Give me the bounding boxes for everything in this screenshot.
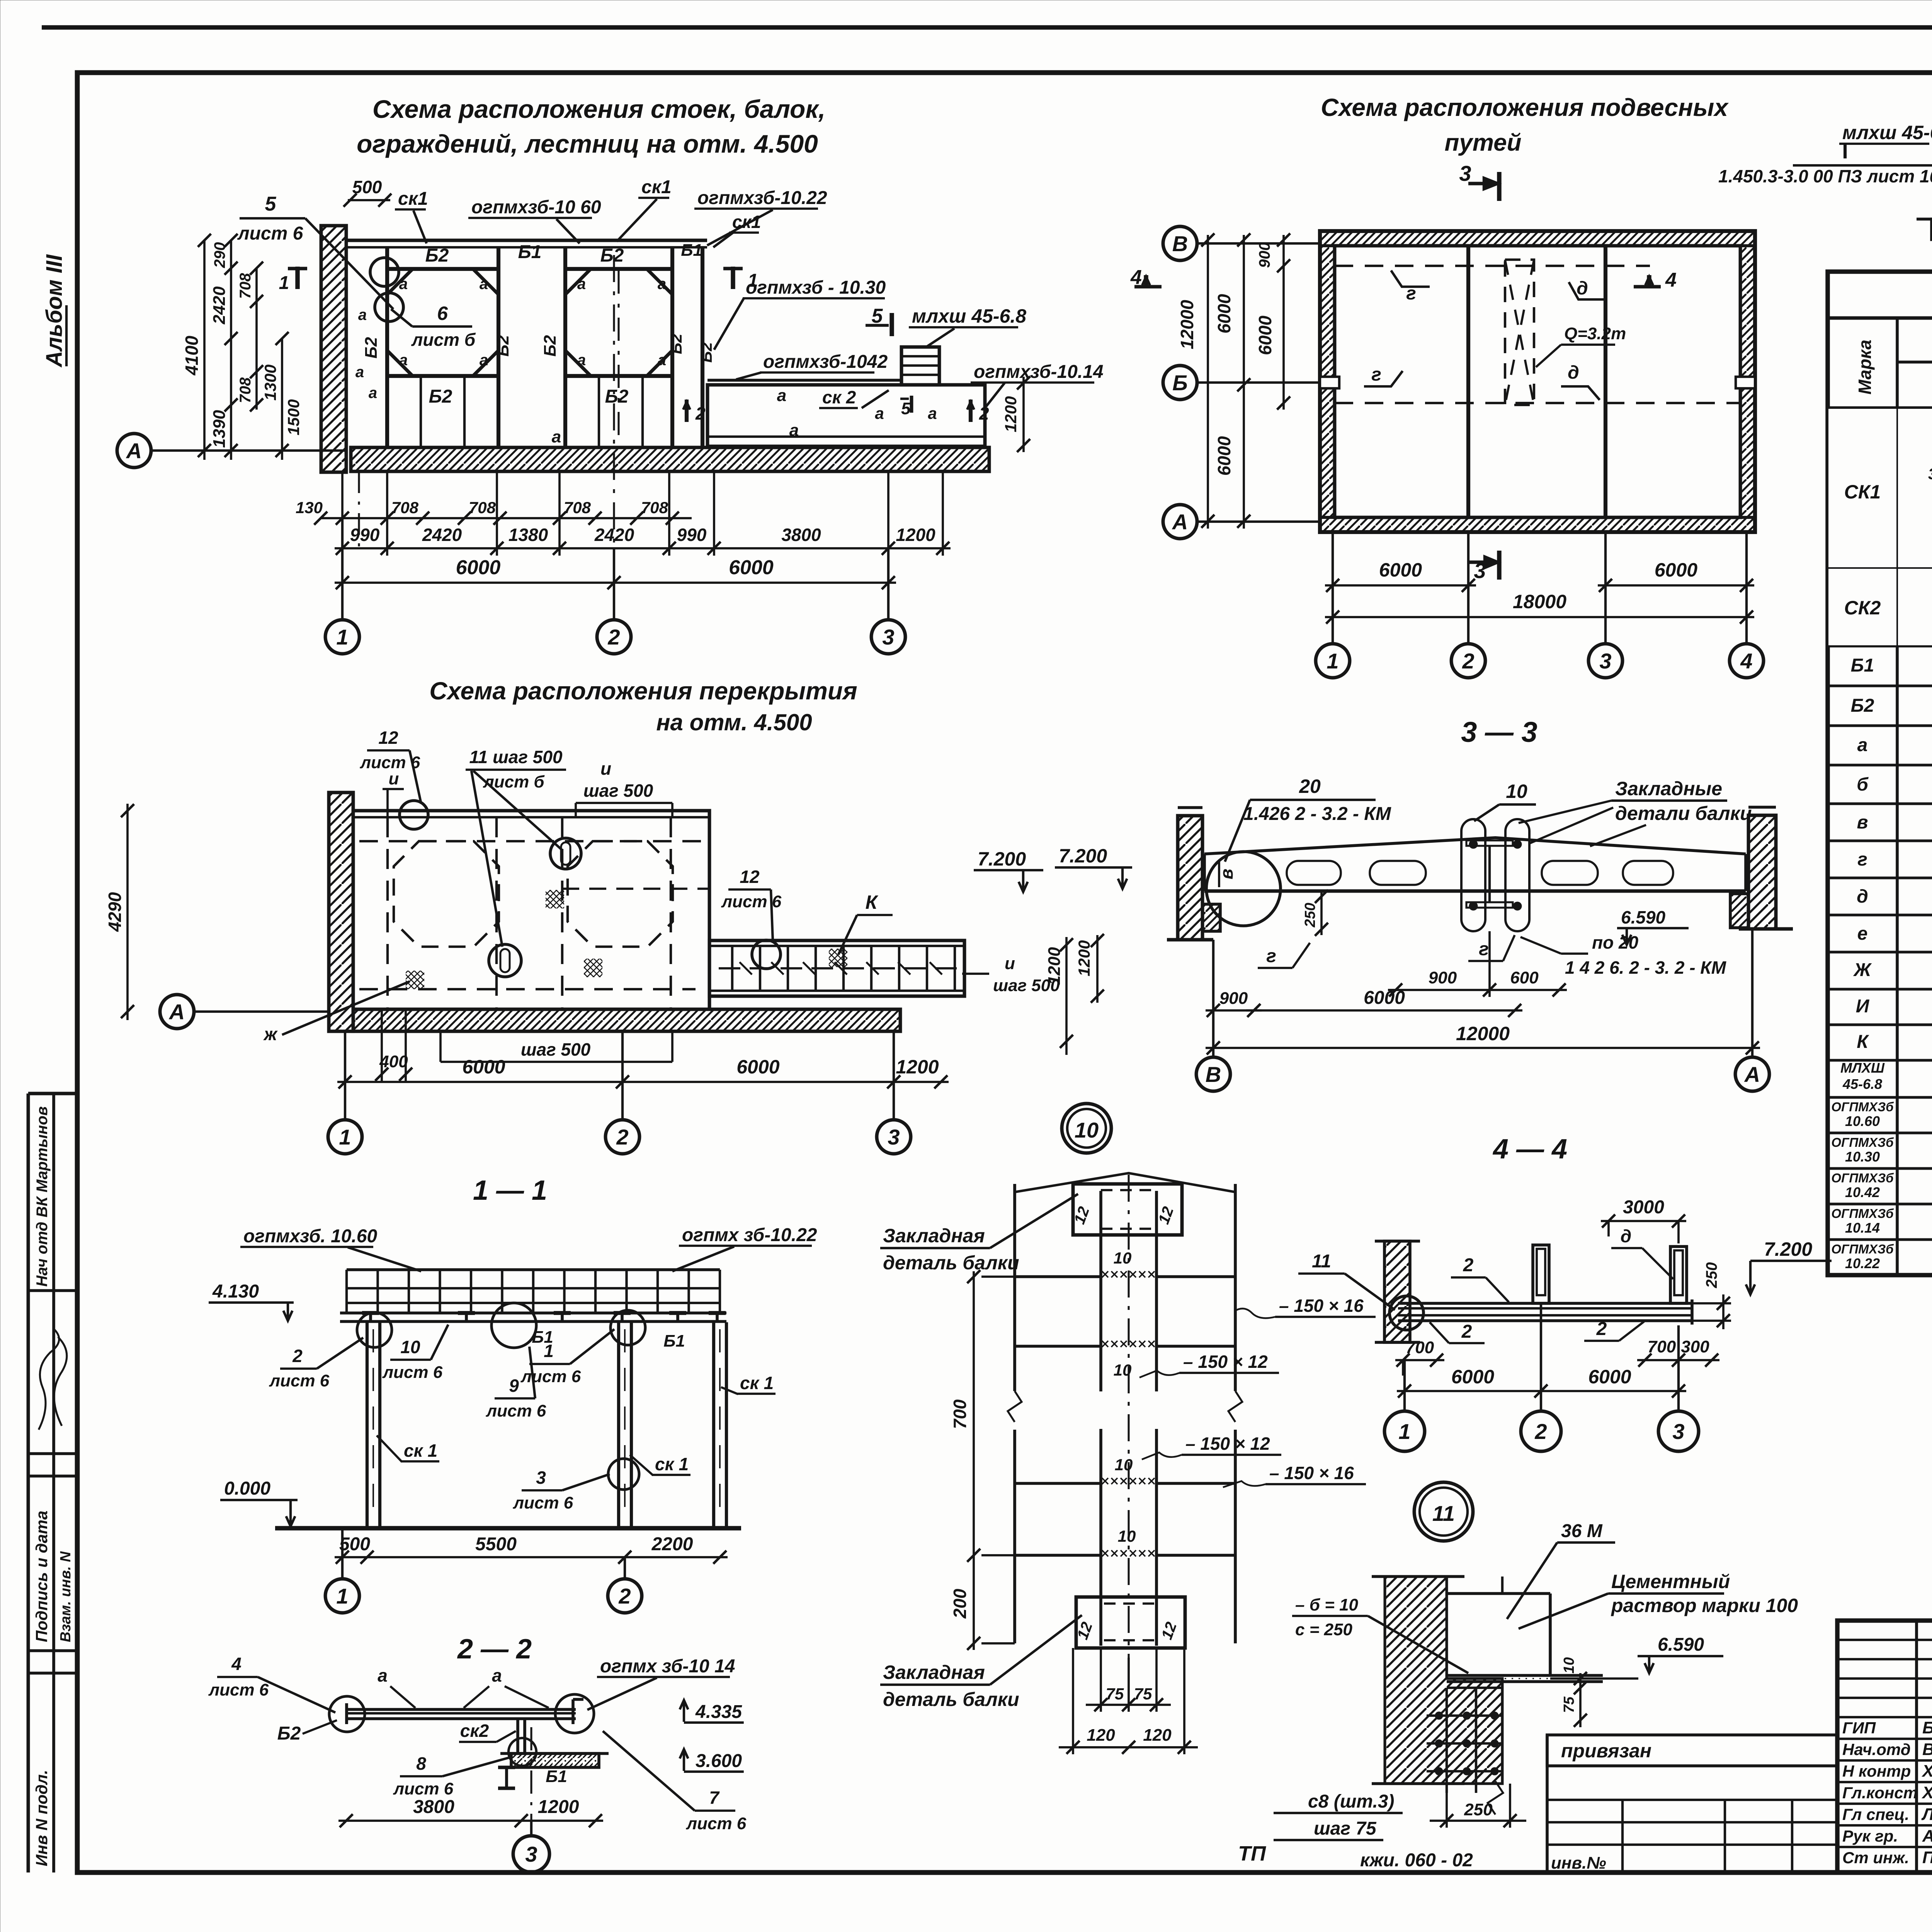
bay1 top and bottom bars <box>387 267 498 271</box>
svg-text:10.22: 10.22 <box>1845 1255 1880 1271</box>
svg-text:Б1: Б1 <box>546 1767 567 1786</box>
svg-text:I: I <box>1842 139 1848 163</box>
section flag 1 left <box>295 267 299 289</box>
svg-text:– 150 × 16: – 150 × 16 <box>1279 1296 1364 1316</box>
wall right hatched section3 <box>1748 815 1776 929</box>
left dim 4290 plan3 <box>126 804 129 1020</box>
svg-text:2: 2 <box>1534 1419 1547 1444</box>
small plates on girder section3 <box>1466 840 1513 846</box>
svg-text:120: 120 <box>1087 1726 1115 1745</box>
svg-text:д: д <box>1568 362 1579 383</box>
svg-text:Н контр: Н контр <box>1842 1762 1911 1780</box>
svg-text:Гл.конст: Гл.конст <box>1842 1784 1918 1802</box>
bolt rows detail11 <box>1427 1714 1502 1717</box>
svg-text:а: а <box>552 427 561 446</box>
section flag 4 right <box>1634 285 1661 289</box>
svg-text:Закладная: Закладная <box>883 1662 985 1683</box>
svg-text:Б2: Б2 <box>362 337 381 359</box>
svg-text:10: 10 <box>1506 781 1527 802</box>
bottom dim chain row 6000 6000 <box>335 582 896 584</box>
svg-text:а: а <box>658 352 666 369</box>
grid bubble Б <box>1163 366 1197 400</box>
wall left hatched section3 <box>1178 816 1202 940</box>
dim 12000 section3 <box>1206 1047 1760 1049</box>
svg-text:ск1: ск1 <box>398 189 428 209</box>
left dim 6000 6000 <box>1243 235 1245 529</box>
detail10 column verticals <box>1099 1191 1102 1391</box>
grid bubble В <box>1163 226 1197 260</box>
grid bubbles section4 <box>1384 1411 1425 1451</box>
section flag 1 right <box>731 267 735 289</box>
svg-text:3: 3 <box>1459 161 1471 185</box>
I mark under pad s22 <box>505 1767 508 1788</box>
svg-text:Нач.отд: Нач.отд <box>1842 1740 1911 1759</box>
svg-text:20: 20 <box>1299 776 1321 797</box>
svg-text:детали балки: детали балки <box>1615 803 1752 824</box>
svg-text:деталь балки: деталь балки <box>883 1252 1019 1274</box>
svg-text:1: 1 <box>336 1584 348 1608</box>
svg-text:10: 10 <box>1118 1527 1136 1545</box>
dim 10 75 detail11 <box>1579 1673 1582 1727</box>
table header cells <box>1828 406 1932 410</box>
svg-text:а: а <box>658 276 666 293</box>
bolt verticals detail11 <box>1446 1688 1448 1793</box>
section flag 3 top <box>1468 182 1499 185</box>
joint circles section1-1 <box>357 1313 392 1347</box>
svg-text:2420: 2420 <box>210 286 229 325</box>
привязан box <box>1547 1735 1837 1766</box>
bay2 top and bottom bars <box>565 267 672 271</box>
bottom dim chain row 708 <box>321 517 692 519</box>
svg-text:2: 2 <box>616 1125 628 1149</box>
svg-text:6000: 6000 <box>1655 559 1697 581</box>
dashed octagon 1 plan3 <box>394 841 499 947</box>
svg-text:36 М: 36 М <box>1561 1521 1603 1541</box>
svg-text:и: и <box>389 769 399 788</box>
hatched pad s22 <box>511 1753 599 1767</box>
svg-text:СК1: СК1 <box>1844 481 1881 503</box>
dims 900 600 section3 <box>1488 931 1491 997</box>
svg-text:Лисичкин: Лисичкин <box>1921 1805 1932 1824</box>
svg-text:Б1: Б1 <box>532 1328 553 1347</box>
svg-text:огпмхзб-10.14: огпмхзб-10.14 <box>974 362 1104 382</box>
svg-text:кжи. 060 - 02: кжи. 060 - 02 <box>1360 1850 1473 1871</box>
detail circles plan3 <box>400 801 428 829</box>
svg-text:а: а <box>777 386 786 405</box>
joint circle right s22 <box>555 1694 594 1733</box>
grid lines section4 <box>1403 1360 1406 1411</box>
svg-text:3800: 3800 <box>781 525 821 545</box>
beam vertical B2 bay2 left <box>563 247 567 447</box>
dim 700 detail10 <box>973 1271 975 1561</box>
ground line s11 <box>275 1526 741 1530</box>
svg-text:ограждений, лестниц на отм.: ограждений, лестниц на отм. 4.500 <box>357 129 818 158</box>
svg-text:а: а <box>875 404 884 422</box>
beam vertical B2 bay1 right <box>497 247 500 447</box>
svg-text:6.590: 6.590 <box>1658 1634 1704 1655</box>
svg-text:6000: 6000 <box>1451 1366 1494 1388</box>
dim 1200 rotated right plan1 <box>1022 377 1025 452</box>
svg-text:Б2: Б2 <box>429 386 452 407</box>
svg-text:4.335: 4.335 <box>695 1702 742 1722</box>
svg-text:Б2: Б2 <box>605 386 629 407</box>
beam section2-2 <box>347 1708 576 1711</box>
wall hatched left plan3 <box>329 793 353 1031</box>
platform top rail line огпмхзб-1042 <box>707 379 900 382</box>
detail callout circle section3 <box>1206 852 1281 926</box>
svg-text:6000: 6000 <box>1255 315 1275 355</box>
inv mini table <box>1546 1735 1549 1872</box>
stub ск2 s22 <box>516 1719 519 1753</box>
svg-text:9: 9 <box>509 1376 519 1396</box>
svg-text:6.590: 6.590 <box>1621 907 1666 927</box>
grid bubble В section3 <box>1212 940 1214 1057</box>
svg-text:г: г <box>1479 939 1489 959</box>
svg-text:лист 6: лист 6 <box>208 1680 269 1699</box>
svg-text:а: а <box>928 404 937 422</box>
svg-text:1200: 1200 <box>1045 947 1064 985</box>
dim 400 and шаг 500 plan3 <box>381 1009 383 1082</box>
svg-text:1: 1 <box>279 273 289 293</box>
grid bubbles 1 2 3 plan1 <box>341 518 344 620</box>
svg-text:а: а <box>355 364 364 381</box>
svg-text:1200: 1200 <box>896 1056 939 1078</box>
slab outline plan3 <box>353 811 709 1009</box>
svg-text:900: 900 <box>1256 242 1273 268</box>
svg-text:250: 250 <box>1464 1800 1493 1819</box>
svg-text:700: 700 <box>1648 1337 1676 1356</box>
grid bubble A plan1 <box>117 434 151 468</box>
svg-text:2: 2 <box>1461 1321 1472 1342</box>
svg-text:и: и <box>600 759 611 779</box>
corbel right section3 <box>1730 894 1748 928</box>
svg-text:1: 1 <box>1327 649 1338 673</box>
svg-text:1: 1 <box>1398 1419 1410 1444</box>
svg-text:Схема расположения стоек, б: Схема расположения стоек, балок, <box>372 95 825 123</box>
bottom dims plan2 <box>1325 584 1476 587</box>
girder outline section3 <box>1204 838 1746 854</box>
svg-text:А: А <box>1744 1062 1760 1087</box>
svg-text:6000: 6000 <box>456 556 501 579</box>
joint circle left s22 <box>329 1696 365 1732</box>
svg-text:3: 3 <box>1928 466 1932 483</box>
section flag 4 left <box>1134 285 1162 289</box>
svg-text:Q=3.2т: Q=3.2т <box>1564 324 1626 343</box>
svg-text:4.130: 4.130 <box>212 1281 259 1302</box>
svg-text:2420: 2420 <box>422 525 462 545</box>
svg-text:5500: 5500 <box>475 1534 517 1554</box>
dim 250 section4 <box>1722 1294 1725 1329</box>
svg-text:И: И <box>1856 996 1870 1017</box>
svg-text:лист 6: лист 6 <box>513 1493 573 1512</box>
svg-text:ск 1: ск 1 <box>404 1440 437 1461</box>
svg-text:75: 75 <box>1561 1696 1577 1713</box>
svg-text:а: а <box>480 276 488 293</box>
svg-text:г: г <box>1266 946 1276 966</box>
detail double circle 10 <box>1062 1104 1111 1153</box>
svg-text:е: е <box>1857 923 1868 944</box>
svg-text:1.450.3-3.0 00 ПЗ лист 10: 1.450.3-3.0 00 ПЗ лист 10 <box>1718 166 1932 186</box>
svg-text:ОГПМХЗб: ОГПМХЗб <box>1831 1206 1894 1221</box>
svg-text:огпмхзб-10.22: огпмхзб-10.22 <box>697 188 827 208</box>
centerline grid2 plan1 <box>613 255 615 548</box>
svg-text:6: 6 <box>437 303 448 324</box>
svg-text:СК2: СК2 <box>1844 597 1881 619</box>
title block label rows <box>1837 1738 1932 1740</box>
svg-text:А: А <box>1172 510 1188 534</box>
svg-text:Б2: Б2 <box>667 333 685 354</box>
svg-text:с8 (шт.3): с8 (шт.3) <box>1308 1791 1394 1812</box>
svg-text:привязан: привязан <box>1561 1740 1651 1762</box>
svg-text:3: 3 <box>882 625 894 649</box>
svg-text:708: 708 <box>237 273 254 299</box>
svg-text:лист 6: лист 6 <box>686 1814 747 1833</box>
svg-text:290: 290 <box>211 242 228 269</box>
svg-text:– 150 × 12: – 150 × 12 <box>1183 1352 1268 1372</box>
svg-text:К: К <box>866 891 879 913</box>
svg-text:708: 708 <box>391 498 419 517</box>
svg-text:ОГПМХЗб: ОГПМХЗб <box>1831 1135 1894 1150</box>
svg-text:4290: 4290 <box>105 892 125 932</box>
svg-text:– 150 × 16: – 150 × 16 <box>1269 1463 1354 1483</box>
dim 120 120 detail10 <box>1072 1648 1074 1754</box>
detail10 weld xxx marks <box>1102 1271 1108 1277</box>
svg-text:Ст инж.: Ст инж. <box>1842 1849 1909 1867</box>
svg-text:Инв N подл.: Инв N подл. <box>32 1770 51 1866</box>
svg-text:990: 990 <box>350 525 380 545</box>
joint circle section4 <box>1389 1296 1423 1330</box>
svg-text:3000: 3000 <box>1623 1197 1664 1218</box>
building walls left band hatched <box>1320 246 1335 517</box>
svg-text:Б1: Б1 <box>1851 655 1874 676</box>
svg-text:ОГПМХЗб: ОГПМХЗб <box>1831 1171 1894 1185</box>
dim 200 detail10 <box>973 1561 975 1650</box>
svg-text:2: 2 <box>1596 1319 1607 1339</box>
grid lines to bubbles plan2 <box>1332 532 1334 644</box>
svg-text:1300: 1300 <box>261 364 279 400</box>
svg-text:700: 700 <box>1406 1338 1434 1357</box>
svg-text:2 — 2: 2 — 2 <box>457 1634 532 1665</box>
bottom dims plan3 <box>337 1081 949 1083</box>
svg-text:б: б <box>1857 774 1869 795</box>
svg-text:МЛХШ: МЛХШ <box>1840 1060 1885 1076</box>
svg-text:1 4 2 6. 2 - 3. 2 - КМ: 1 4 2 6. 2 - 3. 2 - КМ <box>1565 957 1727 978</box>
post 2 section4 <box>1670 1247 1687 1303</box>
svg-text:на отм. 4.500: на отм. 4.500 <box>656 709 812 735</box>
svg-text:10: 10 <box>1075 1118 1099 1142</box>
svg-text:Б2: Б2 <box>541 335 560 357</box>
detail10 top tapered lines <box>1015 1173 1235 1192</box>
columns section1-1 <box>366 1322 369 1528</box>
octagon bay2 centerline <box>617 270 619 444</box>
svg-text:Подпись и дата: Подпись и дата <box>32 1511 51 1642</box>
beam end plate lines detail11 <box>1447 1674 1603 1677</box>
svg-text:Б2: Б2 <box>493 335 512 357</box>
svg-text:2: 2 <box>1462 649 1474 673</box>
detail double circle 11 <box>1414 1482 1473 1541</box>
svg-text:Хрупало: Хрупало <box>1921 1762 1932 1781</box>
svg-text:ск 1: ск 1 <box>655 1454 689 1474</box>
svg-text:1380: 1380 <box>509 525 548 545</box>
wall hatched detail11 <box>1385 1577 1502 1784</box>
svg-text:Хрупало: Хрупало <box>1921 1783 1932 1802</box>
svg-text:В: В <box>1206 1062 1221 1087</box>
svg-text:Схема расположения подвесных: Схема расположения подвесных <box>1321 94 1729 121</box>
svg-text:4: 4 <box>1130 266 1142 289</box>
grid bubble А plan2 <box>1163 505 1197 539</box>
dim 1200 left section3 <box>1065 937 1068 1055</box>
svg-text:10.60: 10.60 <box>1845 1113 1880 1129</box>
svg-text:Б1: Б1 <box>518 242 542 262</box>
svg-text:Взам. инв. N: Взам. инв. N <box>58 1551 74 1642</box>
svg-text:ск2: ск2 <box>460 1721 489 1741</box>
svg-text:раствор марки 100: раствор марки 100 <box>1611 1595 1798 1616</box>
svg-text:млхш 45-6.8: млхш 45-6.8 <box>912 305 1026 327</box>
svg-text:130: 130 <box>296 498 323 517</box>
svg-text:Нач отд ВК Мартынов: Нач отд ВК Мартынов <box>34 1106 51 1287</box>
svg-text:ТП: ТП <box>1238 1842 1266 1865</box>
svg-text:д: д <box>1857 886 1868 907</box>
beam vertical B2 bay1 left <box>385 247 389 447</box>
hoist dashed rect <box>1505 260 1534 405</box>
svg-text:Б2: Б2 <box>600 245 624 266</box>
svg-text:1.426 2 - 3.2 - КМ: 1.426 2 - 3.2 - КМ <box>1243 804 1391 824</box>
sheet top edge line <box>42 25 1932 29</box>
dim 1200 right plan3 <box>1096 935 1099 1003</box>
svg-text:огпмхзб. 10.60: огпмхзб. 10.60 <box>243 1226 378 1247</box>
svg-text:10: 10 <box>1114 1361 1132 1379</box>
girder oval holes <box>1287 861 1341 885</box>
svg-text:огпмх зб-10.22: огпмх зб-10.22 <box>682 1225 817 1245</box>
right platform outline plan1 <box>707 385 985 446</box>
svg-text:1: 1 <box>339 1125 351 1149</box>
svg-text:1200: 1200 <box>1002 396 1020 432</box>
svg-text:Б: Б <box>1172 371 1188 395</box>
svg-text:А: А <box>126 439 142 463</box>
svg-text:18000: 18000 <box>1513 591 1566 612</box>
detail10 cross beam lines <box>1015 1275 1101 1278</box>
svg-text:а: а <box>378 1665 388 1685</box>
dim 75 75 detail10 <box>1100 1648 1102 1712</box>
svg-text:200: 200 <box>950 1588 970 1619</box>
svg-text:600: 600 <box>1510 968 1539 987</box>
platform posts plan3 <box>731 946 733 991</box>
platform centerline plan3 <box>719 967 958 969</box>
hatched pad section5 <box>1932 219 1932 240</box>
building inner outline <box>1335 246 1740 517</box>
svg-text:6000: 6000 <box>1214 294 1234 333</box>
svg-text:1390: 1390 <box>210 410 229 448</box>
dim 3000 section4 <box>1601 1220 1686 1222</box>
svg-text:2: 2 <box>292 1346 303 1366</box>
building walls bottom band hatched <box>1320 517 1755 532</box>
left dim 900 6000 chain <box>1282 235 1285 410</box>
svg-text:7: 7 <box>709 1787 720 1808</box>
svg-text:2: 2 <box>695 403 706 423</box>
svg-text:лист 6: лист 6 <box>393 1779 454 1798</box>
svg-text:1: 1 <box>336 625 348 649</box>
svg-text:деталь балки: деталь балки <box>883 1689 1019 1710</box>
svg-text:12: 12 <box>378 728 398 748</box>
strap bolts section3 <box>1470 841 1477 848</box>
svg-text:10: 10 <box>1115 1456 1133 1474</box>
table white merge patches <box>1828 409 1896 567</box>
svg-text:75: 75 <box>1106 1685 1124 1703</box>
svg-text:огпмхзб - 10.30: огпмхзб - 10.30 <box>746 277 886 298</box>
post 1 section4 <box>1533 1245 1549 1303</box>
building walls top band hatched <box>1320 231 1755 246</box>
svg-text:Б2: Б2 <box>697 342 715 362</box>
table Ведомость элементов header <box>1828 272 1932 1275</box>
svg-text:Б2: Б2 <box>1851 696 1874 716</box>
svg-text:2: 2 <box>1463 1255 1474 1276</box>
svg-text:12000: 12000 <box>1177 300 1197 349</box>
railing section1-1 <box>347 1268 720 1271</box>
svg-text:Закладная: Закладная <box>883 1225 985 1247</box>
svg-text:А: А <box>168 1000 185 1024</box>
svg-text:3: 3 <box>1599 649 1611 673</box>
detail10 top plate <box>1073 1184 1182 1235</box>
svg-text:10: 10 <box>1114 1249 1132 1267</box>
beam pocket detail11 <box>1447 1592 1550 1595</box>
dims 6000 6000 section4 <box>1397 1390 1686 1392</box>
bottom dim chain row 990-2420 <box>335 547 951 549</box>
svg-text:огпмхзб-10 60: огпмхзб-10 60 <box>471 197 601 218</box>
svg-text:Винклер: Винклер <box>1922 1740 1932 1759</box>
dims 900 6000 section3 <box>1206 1009 1262 1012</box>
svg-text:10: 10 <box>1561 1657 1577 1673</box>
svg-text:1200: 1200 <box>896 525 935 545</box>
left stamp column boxes <box>27 1094 30 1872</box>
svg-text:Б1: Б1 <box>681 241 702 260</box>
wall hatched left pier plan 1 <box>321 226 346 472</box>
svg-text:500: 500 <box>339 1534 370 1554</box>
svg-text:3: 3 <box>888 1125 900 1149</box>
svg-text:Схема расположения перекрыти: Схема расположения перекрытия <box>429 677 857 705</box>
detail10 centerline <box>1128 1175 1129 1658</box>
grid bubbles plan3 <box>344 1031 346 1120</box>
beam band section4 <box>1398 1302 1692 1305</box>
title block verticals <box>1915 1621 1918 1872</box>
svg-text:в: в <box>1857 812 1868 833</box>
svg-text:а: а <box>577 276 586 293</box>
svg-text:7.200: 7.200 <box>1764 1238 1812 1260</box>
svg-text:Белоус: Белоус <box>1922 1718 1932 1737</box>
svg-text:6000: 6000 <box>1379 559 1422 581</box>
svg-text:10.30: 10.30 <box>1845 1149 1880 1165</box>
svg-text:шаг 500: шаг 500 <box>521 1039 591 1060</box>
svg-text:а: а <box>399 276 408 293</box>
svg-text:250: 250 <box>1302 903 1318 927</box>
svg-text:ск 1: ск 1 <box>740 1373 774 1393</box>
svg-text:К: К <box>1857 1032 1869 1052</box>
grid1 centerline below strip <box>358 471 360 553</box>
svg-text:2200: 2200 <box>651 1534 693 1554</box>
svg-text:75: 75 <box>1134 1685 1152 1703</box>
svg-text:ск1: ск1 <box>641 177 672 197</box>
left dim chain plan1 <box>203 240 206 460</box>
svg-text:8: 8 <box>416 1753 426 1774</box>
svg-text:11: 11 <box>1312 1251 1331 1272</box>
beam top chord CK1 line <box>346 239 707 242</box>
svg-text:3: 3 <box>525 1842 537 1866</box>
svg-text:5: 5 <box>901 399 911 418</box>
bay stub verticals below <box>420 376 422 447</box>
svg-text:Гл спец.: Гл спец. <box>1842 1805 1909 1823</box>
svg-text:г: г <box>1371 364 1381 385</box>
svg-text:лист 6: лист 6 <box>237 223 303 244</box>
svg-text:7.200: 7.200 <box>978 848 1026 870</box>
